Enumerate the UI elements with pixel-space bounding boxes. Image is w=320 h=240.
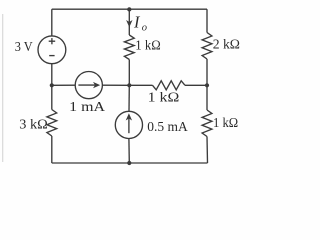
resistor R4 3kOhm left vertical: [47, 110, 57, 137]
svg-text:1 kΩ: 1 kΩ: [213, 116, 238, 131]
wire middle branch to center node: [128, 60, 130, 86]
wire middle rail center segment: [102, 84, 129, 86]
resistor R6 1kOhm horizontal: [153, 81, 186, 90]
svg-text:3 V: 3 V: [15, 40, 33, 55]
wire below I2: [128, 138, 130, 163]
svg-text:1 kΩ: 1 kΩ: [148, 90, 180, 105]
wire left branch upper: [51, 9, 53, 36]
current source I1 1mA: [75, 72, 102, 99]
current source I2 0.5mA: [115, 111, 142, 138]
wire middle rail left segment: [52, 84, 76, 86]
node bottom junction: [127, 161, 131, 165]
svg-text:0.5 mA: 0.5 mA: [147, 120, 188, 135]
wire bottom rail: [52, 162, 208, 164]
wire middle branch upper: [128, 9, 130, 35]
arrow of I1 pointing right: [78, 82, 100, 88]
node center junction: [127, 83, 131, 87]
wire right branch below node: [206, 85, 208, 110]
minus symbol of V1: [49, 55, 54, 57]
plus symbol of V1: [49, 38, 56, 44]
wire left branch lower: [51, 85, 53, 109]
svg-text:2 kΩ: 2 kΩ: [213, 38, 240, 53]
scan streak left edge: [2, 14, 4, 162]
wire right branch upper: [206, 9, 208, 32]
resistor R5 1kOhm right vertical: [202, 110, 212, 137]
voltage source V1 3V: [38, 36, 66, 64]
svg-text:1 kΩ: 1 kΩ: [135, 38, 160, 53]
svg-text:1 mA: 1 mA: [69, 100, 106, 115]
arrow of I2 pointing up: [126, 113, 132, 133]
resistor R3 2kOhm right vertical: [202, 33, 212, 60]
label Io: [133, 12, 147, 33]
svg-text:o: o: [142, 22, 147, 33]
resistor R2 1kOhm middle vertical: [124, 35, 134, 59]
node left-middle junction: [50, 83, 54, 87]
wire left branch below source: [51, 64, 53, 86]
wire middle rail to right node: [185, 84, 207, 86]
wire right branch middle: [206, 59, 208, 85]
svg-text:I: I: [133, 12, 141, 31]
arrow Io pointing down: [126, 20, 132, 27]
node right-middle junction: [205, 83, 209, 87]
wire right branch to bottom rail: [206, 137, 209, 164]
wire middle branch below center node: [128, 85, 130, 111]
node top junction: [127, 7, 131, 11]
svg-text:3 kΩ: 3 kΩ: [19, 117, 48, 132]
wire top rail: [52, 8, 207, 10]
wire left branch to bottom rail: [51, 136, 53, 163]
wire middle rail right of center node: [129, 84, 152, 86]
